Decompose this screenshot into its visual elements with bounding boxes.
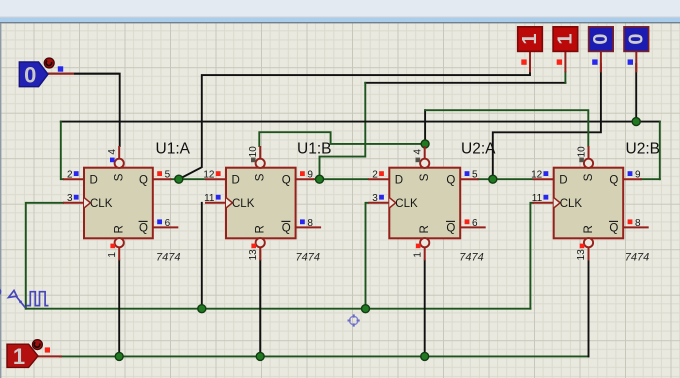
logic probe P2 (1) [553,27,578,73]
wire: probe 4 drop to feedback net [635,64,637,122]
svg-text:D: D [90,175,98,187]
svg-text:Q: Q [446,175,455,187]
D flip-flop U1:A (7474) [63,146,178,261]
svg-text:11: 11 [532,193,543,204]
svg-text:2: 2 [67,170,73,181]
wire: U2:A Q to U2:B D link [478,178,532,180]
svg-text:R: R [419,225,431,233]
logic probe P3 (0) [589,27,614,73]
D flip-flop U1:B (7474) [203,146,321,261]
svg-text:Q: Q [139,175,148,187]
svg-text:5: 5 [472,170,478,181]
wire: probe 2 upper segment [365,82,565,84]
junction U1:B Q tap [316,175,324,183]
wire: clock riser to U1:A CLK [26,203,63,309]
svg-text:Q: Q [139,222,148,234]
wire: probe 1 to U1:A Q / U1:B D net [179,64,530,179]
svg-text:12: 12 [531,170,543,181]
wire: logic input 0 to U1:A S-bar (net S1A) [48,74,120,146]
svg-text:8: 8 [635,218,641,229]
svg-text:4: 4 [107,149,118,155]
svg-text:0: 0 [625,34,647,45]
logic state input "1" (bottom left) [7,340,62,370]
junction reset at U1:A drop [115,352,123,360]
label U1:A [156,140,191,157]
logic probe P4 (0) [624,27,649,73]
svg-text:1: 1 [554,34,576,45]
junction reset at U1:B drop [256,352,264,360]
origin crosshair marker [348,314,360,326]
junction clock at U2:A riser [362,305,370,313]
window top bars [0,0,680,17]
svg-text:7474: 7474 [625,252,649,264]
logic probe P1 (1) [518,27,543,73]
value 7474 of U2:B [625,252,649,264]
svg-text:7474: 7474 [296,252,320,264]
junction clock at U1:B riser [198,305,206,313]
svg-text:0: 0 [24,63,36,88]
wire: clock net horizontal [26,308,531,310]
svg-text:D: D [559,175,567,187]
wire: clock riser to U2:B CLK [530,203,533,309]
svg-text:U2:B: U2:B [626,140,660,157]
svg-text:CLK: CLK [560,198,583,210]
svg-text:S: S [255,173,267,181]
label U2:A [461,140,496,157]
junction U1:A Q / U1:B D [175,175,183,183]
wire: feedback left drop into U1:A D [61,122,63,180]
wire: U2:B Q stub link [641,178,660,180]
wire: S-bar chain U1:B S to U2:A S [259,132,425,146]
label U1:B [297,140,331,157]
junction U2:A Q / U2:B D [489,175,497,183]
svg-text:9: 9 [307,170,313,181]
svg-text:10: 10 [248,146,259,158]
wire: feedback right riser from U2:B Q [659,122,661,180]
svg-text:2: 2 [372,170,378,181]
wire: U1:B R drop [259,261,261,357]
logic state input "0" (top left) [19,58,119,88]
wire: S-bar chain riser above U2:A [424,110,426,144]
svg-text:8: 8 [307,218,313,229]
svg-text:R: R [583,225,595,233]
wire: U1:A Q to U1:B D link [171,178,205,180]
svg-text:6: 6 [165,218,171,229]
wire: reset net horizontal (logic 1) [60,355,589,357]
svg-text:4: 4 [413,149,424,155]
svg-text:7474: 7474 [156,252,180,264]
wire: U2:B R riser from reset net [588,261,590,357]
junction reset at U2:A drop [421,352,429,360]
svg-text:S: S [583,173,595,181]
value 7474 of U1:A [156,252,180,264]
svg-text:CLK: CLK [90,198,113,210]
svg-text:10: 10 [576,146,587,158]
junction probe 4 on feedback net [632,118,640,126]
svg-text:Q: Q [282,222,291,234]
wire: probe 3 to U2:A Q / U2:B D net [493,64,601,179]
svg-text:S: S [419,173,431,181]
svg-text:Q: Q [446,222,455,234]
svg-text:CLK: CLK [395,198,418,210]
svg-text:6: 6 [472,218,478,229]
wire: S-bar chain to U2:B S [425,110,588,146]
svg-text:D: D [395,175,403,187]
svg-text:1: 1 [13,344,25,369]
svg-text:5: 5 [165,170,171,181]
wire: probe 2 to U1:B Q / U2:A D net lower segment [320,83,366,179]
D flip-flop U2:B (7474) [531,146,649,261]
svg-text:13: 13 [248,249,259,261]
svg-text:3: 3 [67,193,73,204]
value 7474 of U2:A [459,252,483,264]
svg-text:1: 1 [519,34,541,45]
wire: U1:B Q to U2:A D link [314,178,369,180]
svg-text:S: S [114,173,126,181]
svg-text:R: R [114,225,126,233]
svg-text:D: D [232,175,240,187]
svg-text:Q: Q [282,175,291,187]
label U2:B [626,140,660,157]
junction S-bar chain above U2:A [421,140,429,148]
wire: clock riser to U1:B CLK [201,203,203,309]
wire: probe 2 short green drop [564,72,566,83]
D flip-flop U2:A (7474) [368,146,485,261]
svg-text:11: 11 [204,193,215,204]
svg-text:0: 0 [590,34,612,45]
svg-text:U1:B: U1:B [297,140,331,157]
svg-text:U2:A: U2:A [461,140,496,157]
value 7474 of U1:B [296,252,320,264]
svg-text:1: 1 [107,252,118,258]
svg-text:12: 12 [203,170,215,181]
svg-text:Q: Q [609,222,618,234]
svg-text:Q: Q [609,175,618,187]
svg-text:CLK: CLK [232,198,255,210]
wire: clock riser to U2:A CLK [366,203,369,309]
wire: U2:A S drop from junction [424,144,426,148]
wire: U1:A R drop [118,261,120,357]
svg-text:1: 1 [412,252,423,258]
svg-text:R: R [255,225,267,233]
svg-text:7474: 7474 [459,252,483,264]
svg-text:13: 13 [576,249,587,261]
digital clock generator [0,288,49,308]
svg-text:9: 9 [635,170,641,181]
wire: U2:A R drop [424,261,426,357]
svg-text:U1:A: U1:A [156,140,191,157]
wire: U2:B Q feedback to U1:A D (long horizontal) [61,121,660,123]
svg-text:3: 3 [372,193,378,204]
